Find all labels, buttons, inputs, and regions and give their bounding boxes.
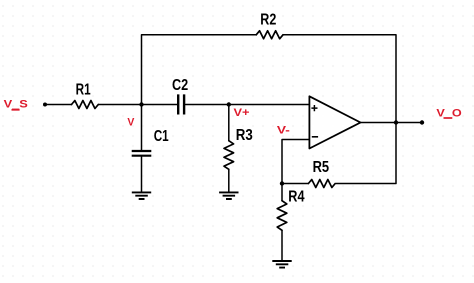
svg-text:R5: R5 (313, 159, 330, 176)
svg-text:V_S: V_S (4, 99, 29, 111)
svg-text:C1: C1 (154, 128, 169, 145)
svg-text:R1: R1 (76, 82, 91, 99)
svg-text:V-: V- (277, 125, 290, 137)
svg-text:R2: R2 (260, 12, 276, 29)
svg-text:R4: R4 (288, 189, 304, 206)
svg-text:R3: R3 (236, 127, 253, 144)
svg-text:V: V (127, 116, 134, 128)
svg-text:V+: V+ (234, 107, 250, 119)
svg-text:C2: C2 (172, 77, 188, 94)
